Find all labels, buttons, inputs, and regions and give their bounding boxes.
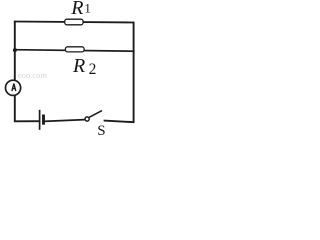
svg-text:eoo.com: eoo.com [18,70,47,80]
wire top [14,22,134,23]
switch lever [89,111,102,118]
switch S pivot circle [85,117,89,121]
wire middle (R2 branch) [14,50,135,52]
wire right vertical [133,22,135,123]
svg-text:S: S [97,123,105,136]
svg-text:1: 1 [84,1,91,16]
wire bottom right segment [104,121,135,123]
node junction dot [13,48,17,52]
svg-text:2: 2 [89,61,97,78]
ammeter A [5,80,20,95]
resistor R1 [65,19,83,25]
resistor R2 [65,47,84,52]
svg-text:R: R [72,55,85,77]
wire bottom left segment [14,120,40,122]
background [0,0,137,136]
svg-text:R: R [70,0,83,19]
ammeter letter A [12,84,16,92]
wire left vertical [14,21,16,122]
battery short plate [42,115,45,125]
battery long plate [39,110,41,130]
wire bottom middle segment [44,120,85,122]
